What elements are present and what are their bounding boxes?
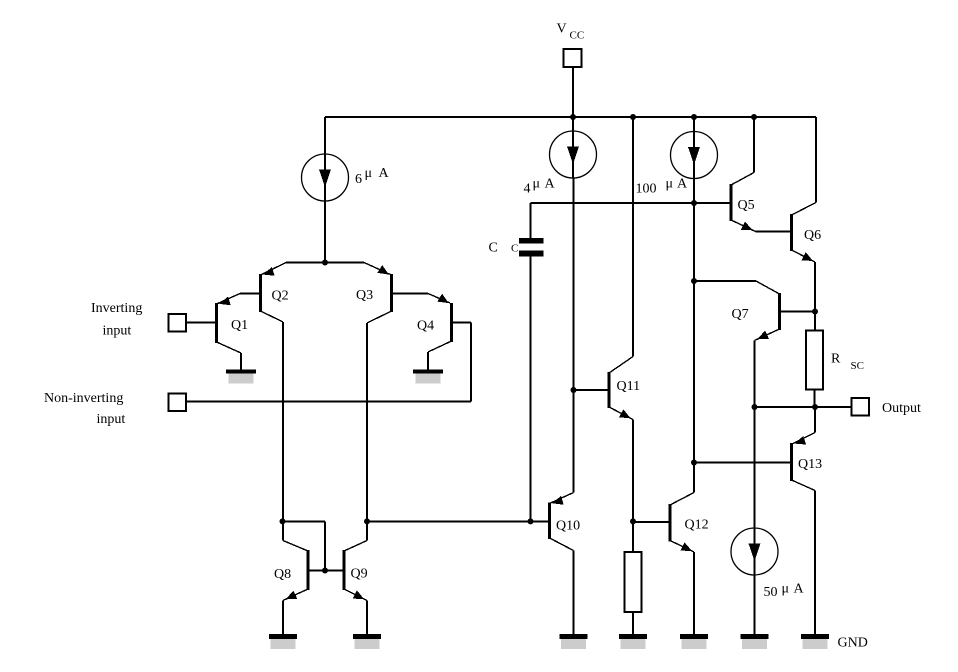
svg-text:50: 50 bbox=[764, 585, 778, 600]
svg-text:Q11: Q11 bbox=[617, 379, 641, 394]
svg-text:A: A bbox=[794, 582, 805, 597]
svg-text:A: A bbox=[379, 166, 390, 181]
svg-text:Output: Output bbox=[882, 401, 921, 416]
svg-text:GND: GND bbox=[838, 636, 868, 651]
svg-text:Q1: Q1 bbox=[231, 318, 248, 333]
svg-text:input: input bbox=[103, 324, 132, 339]
svg-text:μ: μ bbox=[666, 177, 674, 192]
svg-text:A: A bbox=[677, 177, 688, 192]
svg-text:Q7: Q7 bbox=[732, 307, 749, 322]
svg-text:Q5: Q5 bbox=[738, 198, 755, 213]
svg-text:Non-inverting: Non-inverting bbox=[44, 391, 123, 406]
svg-text:Q4: Q4 bbox=[417, 319, 434, 334]
svg-text:6: 6 bbox=[355, 172, 362, 187]
svg-text:Q10: Q10 bbox=[556, 519, 580, 534]
svg-text:V: V bbox=[557, 22, 567, 37]
svg-text:CC: CC bbox=[570, 30, 585, 42]
svg-text:A: A bbox=[545, 177, 556, 192]
svg-text:SC: SC bbox=[851, 360, 864, 372]
svg-text:Q12: Q12 bbox=[685, 518, 709, 533]
svg-text:R: R bbox=[831, 352, 841, 367]
svg-text:Q9: Q9 bbox=[351, 567, 368, 582]
svg-text:C: C bbox=[511, 243, 518, 255]
svg-text:Inverting: Inverting bbox=[91, 301, 142, 316]
svg-text:Q6: Q6 bbox=[804, 228, 821, 243]
svg-text:Q3: Q3 bbox=[356, 288, 373, 303]
svg-text:4: 4 bbox=[524, 182, 531, 197]
svg-text:Q8: Q8 bbox=[274, 567, 291, 582]
svg-text:input: input bbox=[97, 412, 126, 427]
svg-text:C: C bbox=[489, 241, 498, 256]
svg-text:μ: μ bbox=[533, 177, 541, 192]
svg-text:μ: μ bbox=[365, 166, 373, 181]
svg-text:μ: μ bbox=[782, 582, 790, 597]
svg-text:Q2: Q2 bbox=[272, 289, 289, 304]
svg-text:100: 100 bbox=[636, 182, 657, 197]
svg-text:Q13: Q13 bbox=[798, 457, 822, 472]
